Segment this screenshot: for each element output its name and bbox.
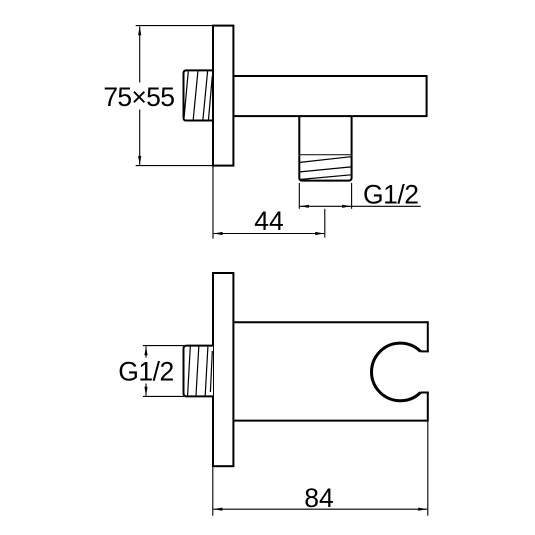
front view: body bottom edge: [233, 420, 427, 422]
side view: outlet thread hatch line 2: [300, 167, 351, 172]
dimension G1/2 top: left extension line: [298, 183, 300, 209]
svg-text:75×55: 75×55: [103, 82, 174, 112]
dimension G1/2 bottom: upper dimension line segment: [145, 346, 147, 357]
side view: body: [233, 76, 426, 116]
dimension 75x55: top extension line: [136, 25, 213, 27]
dimension 75x55: up arrowhead: [138, 26, 141, 35]
side view: outlet pipe left edge: [298, 116, 300, 155]
dimension 84: left extension line: [212, 467, 214, 516]
dimension G1/2 top: right extension line: [351, 183, 353, 209]
dimension G1/2 bottom: up arrowhead: [144, 346, 147, 355]
dimension 44: dimension line: [214, 233, 325, 235]
side view: inlet hatch line 3: [203, 71, 208, 120]
front view: holder opening lower stub: [421, 392, 429, 394]
side view: inlet hatch line 4: [209, 76, 213, 120]
front view: body top edge: [233, 321, 427, 323]
dimension 44: left arrowhead: [214, 232, 223, 235]
front view: wall plate: [213, 273, 233, 466]
dimension 44: right extension line (outlet centerline): [324, 209, 326, 238]
svg-text:G1/2: G1/2: [363, 180, 418, 210]
front view: holder opening upper stub: [421, 350, 429, 352]
svg-text:G1/2: G1/2: [118, 357, 173, 387]
dimension 75x55: bottom extension line: [136, 165, 213, 167]
dimension 84: dimension line: [213, 508, 427, 510]
dimension G1/2 top: dimension and leader line: [300, 205, 421, 207]
side view: inlet hatch line 1: [184, 71, 188, 119]
side view: inlet hatch line 2: [193, 71, 198, 120]
dimension 84: left arrowhead: [213, 508, 222, 511]
front view: inlet hatch line 4: [210, 351, 212, 392]
side view: outlet thread boundary: [299, 154, 351, 156]
dimension G1/2 bottom: down arrowhead: [144, 387, 147, 396]
side view: wall plate: [213, 26, 233, 166]
dimension G1/2 top: right arrowhead: [342, 205, 351, 208]
front view: body right edge upper segment: [427, 321, 429, 351]
svg-text:44: 44: [254, 206, 283, 236]
side view: outlet threaded section outline: [299, 155, 351, 180]
dimension 75x55: down arrowhead: [138, 156, 141, 165]
dimension 75x55: upper dimension line segment: [139, 26, 141, 82]
side view: outlet thread hatch line 1: [300, 157, 351, 163]
dimension G1/2 bottom: bottom extension line: [143, 395, 184, 397]
front view: inlet hatch line 3: [205, 347, 208, 396]
dimension 44: right arrowhead: [315, 232, 324, 235]
dimension G1/2 bottom: top extension line: [143, 345, 184, 347]
side view: outlet pipe right edge: [351, 116, 353, 155]
dimension G1/2 top: left arrowhead: [300, 205, 309, 208]
front view: inlet thread outline: [184, 346, 214, 397]
svg-text:84: 84: [304, 483, 333, 513]
front view: inlet hatch line 1: [188, 347, 191, 396]
dimension G1/2 bottom: lower dimension line segment: [145, 384, 147, 396]
side view: inlet thread outline: [184, 70, 214, 120]
dimension 84: right arrowhead: [418, 508, 427, 511]
front view: body right edge lower segment: [427, 393, 429, 422]
dimension 75x55: lower dimension line segment: [139, 110, 141, 165]
dimension 44: left extension line: [212, 167, 214, 239]
front view: inlet hatch line 2: [196, 347, 199, 396]
side view: outlet thread hatch line 3: [301, 175, 351, 180]
front view: holder cradle arc: [372, 343, 421, 401]
dimension 84: right extension line: [427, 422, 429, 516]
